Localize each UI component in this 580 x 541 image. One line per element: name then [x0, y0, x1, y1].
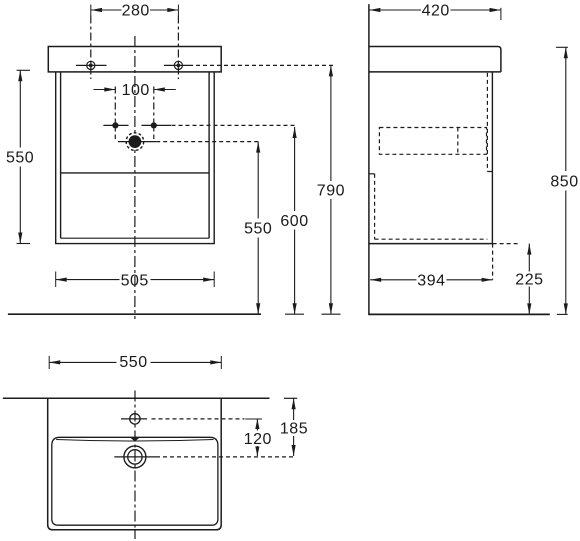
dimension 394	[370, 278, 492, 282]
cabinet bottom solid line side view	[369, 243, 493, 245]
dimension 280	[91, 5, 179, 16]
basin inner bowl outline	[52, 437, 218, 525]
dimension 120	[255, 419, 259, 456]
floor line side view	[368, 313, 550, 315]
projection dashed tap hole to 120	[152, 418, 245, 420]
bowl inner edge second line	[56, 440, 213, 442]
floor line front view	[8, 313, 261, 315]
dimension 600	[285, 127, 304, 314]
cabinet front hidden line	[486, 73, 488, 172]
basin side view bottom	[369, 71, 501, 73]
svg-text:550: 550	[6, 150, 34, 167]
projection dashed line to 790	[196, 64, 333, 66]
step front bottom	[487, 171, 492, 173]
drain hole front view	[118, 133, 156, 151]
svg-text:790: 790	[317, 183, 345, 200]
fixing hole right centerline	[177, 16, 179, 80]
tap fixing dot left	[103, 122, 128, 128]
dimension 550 left	[17, 70, 30, 243]
tap fixing dot right	[142, 122, 172, 128]
tick bar 185 top	[284, 397, 297, 399]
dimension 100	[94, 87, 176, 91]
fixing hole left	[76, 61, 107, 69]
dimension 185	[292, 398, 296, 456]
svg-text:185: 185	[280, 421, 308, 438]
extension line 100 left	[114, 87, 116, 140]
fixing hole right	[164, 61, 193, 69]
basin side view outline	[369, 47, 501, 72]
centerline front view	[134, 36, 136, 319]
dimension 790	[322, 65, 341, 314]
siphon cutout dashed rectangle	[379, 128, 486, 155]
fixing hole left centerline	[90, 16, 92, 80]
dimension 225	[527, 244, 531, 315]
cabinet outer outline front	[56, 72, 215, 244]
svg-text:280: 280	[122, 3, 150, 20]
svg-text:120: 120	[244, 431, 272, 448]
drawer divider line	[61, 172, 210, 174]
svg-text:394: 394	[417, 272, 445, 289]
svg-text:550: 550	[244, 221, 272, 238]
cabinet inner left panel line	[60, 72, 62, 238]
projection dashed to 225	[493, 243, 520, 245]
wall line side view	[368, 4, 370, 314]
dimension 420	[369, 8, 501, 20]
siphon cutout divider	[457, 128, 459, 155]
cabinet front solid line side view	[491, 72, 493, 243]
extension line 100 right	[153, 87, 155, 140]
cabinet inner right panel line	[208, 72, 210, 238]
projection dashed drain to 185	[156, 456, 294, 458]
cabinet bottom hidden line	[375, 238, 488, 240]
svg-text:225: 225	[515, 272, 543, 289]
wall line bottom view	[3, 397, 270, 399]
dimension 850	[556, 47, 568, 314]
projection dashed down to 394	[492, 244, 494, 280]
basin outline front view	[48, 47, 221, 72]
projection dashed line to 600	[172, 124, 298, 126]
basin outer outline bottom view	[48, 398, 222, 530]
svg-text:420: 420	[422, 3, 450, 20]
projection dashed line to 550 right	[156, 141, 261, 143]
centerline bottom view	[134, 391, 136, 540]
tap hole bottom view	[121, 414, 147, 424]
svg-text:505: 505	[121, 272, 149, 289]
step back left	[369, 173, 375, 175]
cabinet inner bottom line	[61, 237, 210, 239]
dimension 550 bottom	[49, 356, 221, 369]
svg-text:550: 550	[119, 354, 147, 371]
center mark triangle	[130, 438, 139, 442]
cabinet back hidden line	[374, 174, 376, 239]
tick bar 120 top	[245, 418, 262, 420]
dimension 550 right	[256, 142, 260, 315]
svg-text:600: 600	[280, 213, 308, 230]
svg-text:850: 850	[550, 174, 578, 191]
dimension 505	[56, 272, 215, 288]
drain hole bottom view	[114, 446, 156, 468]
svg-text:100: 100	[122, 82, 150, 99]
